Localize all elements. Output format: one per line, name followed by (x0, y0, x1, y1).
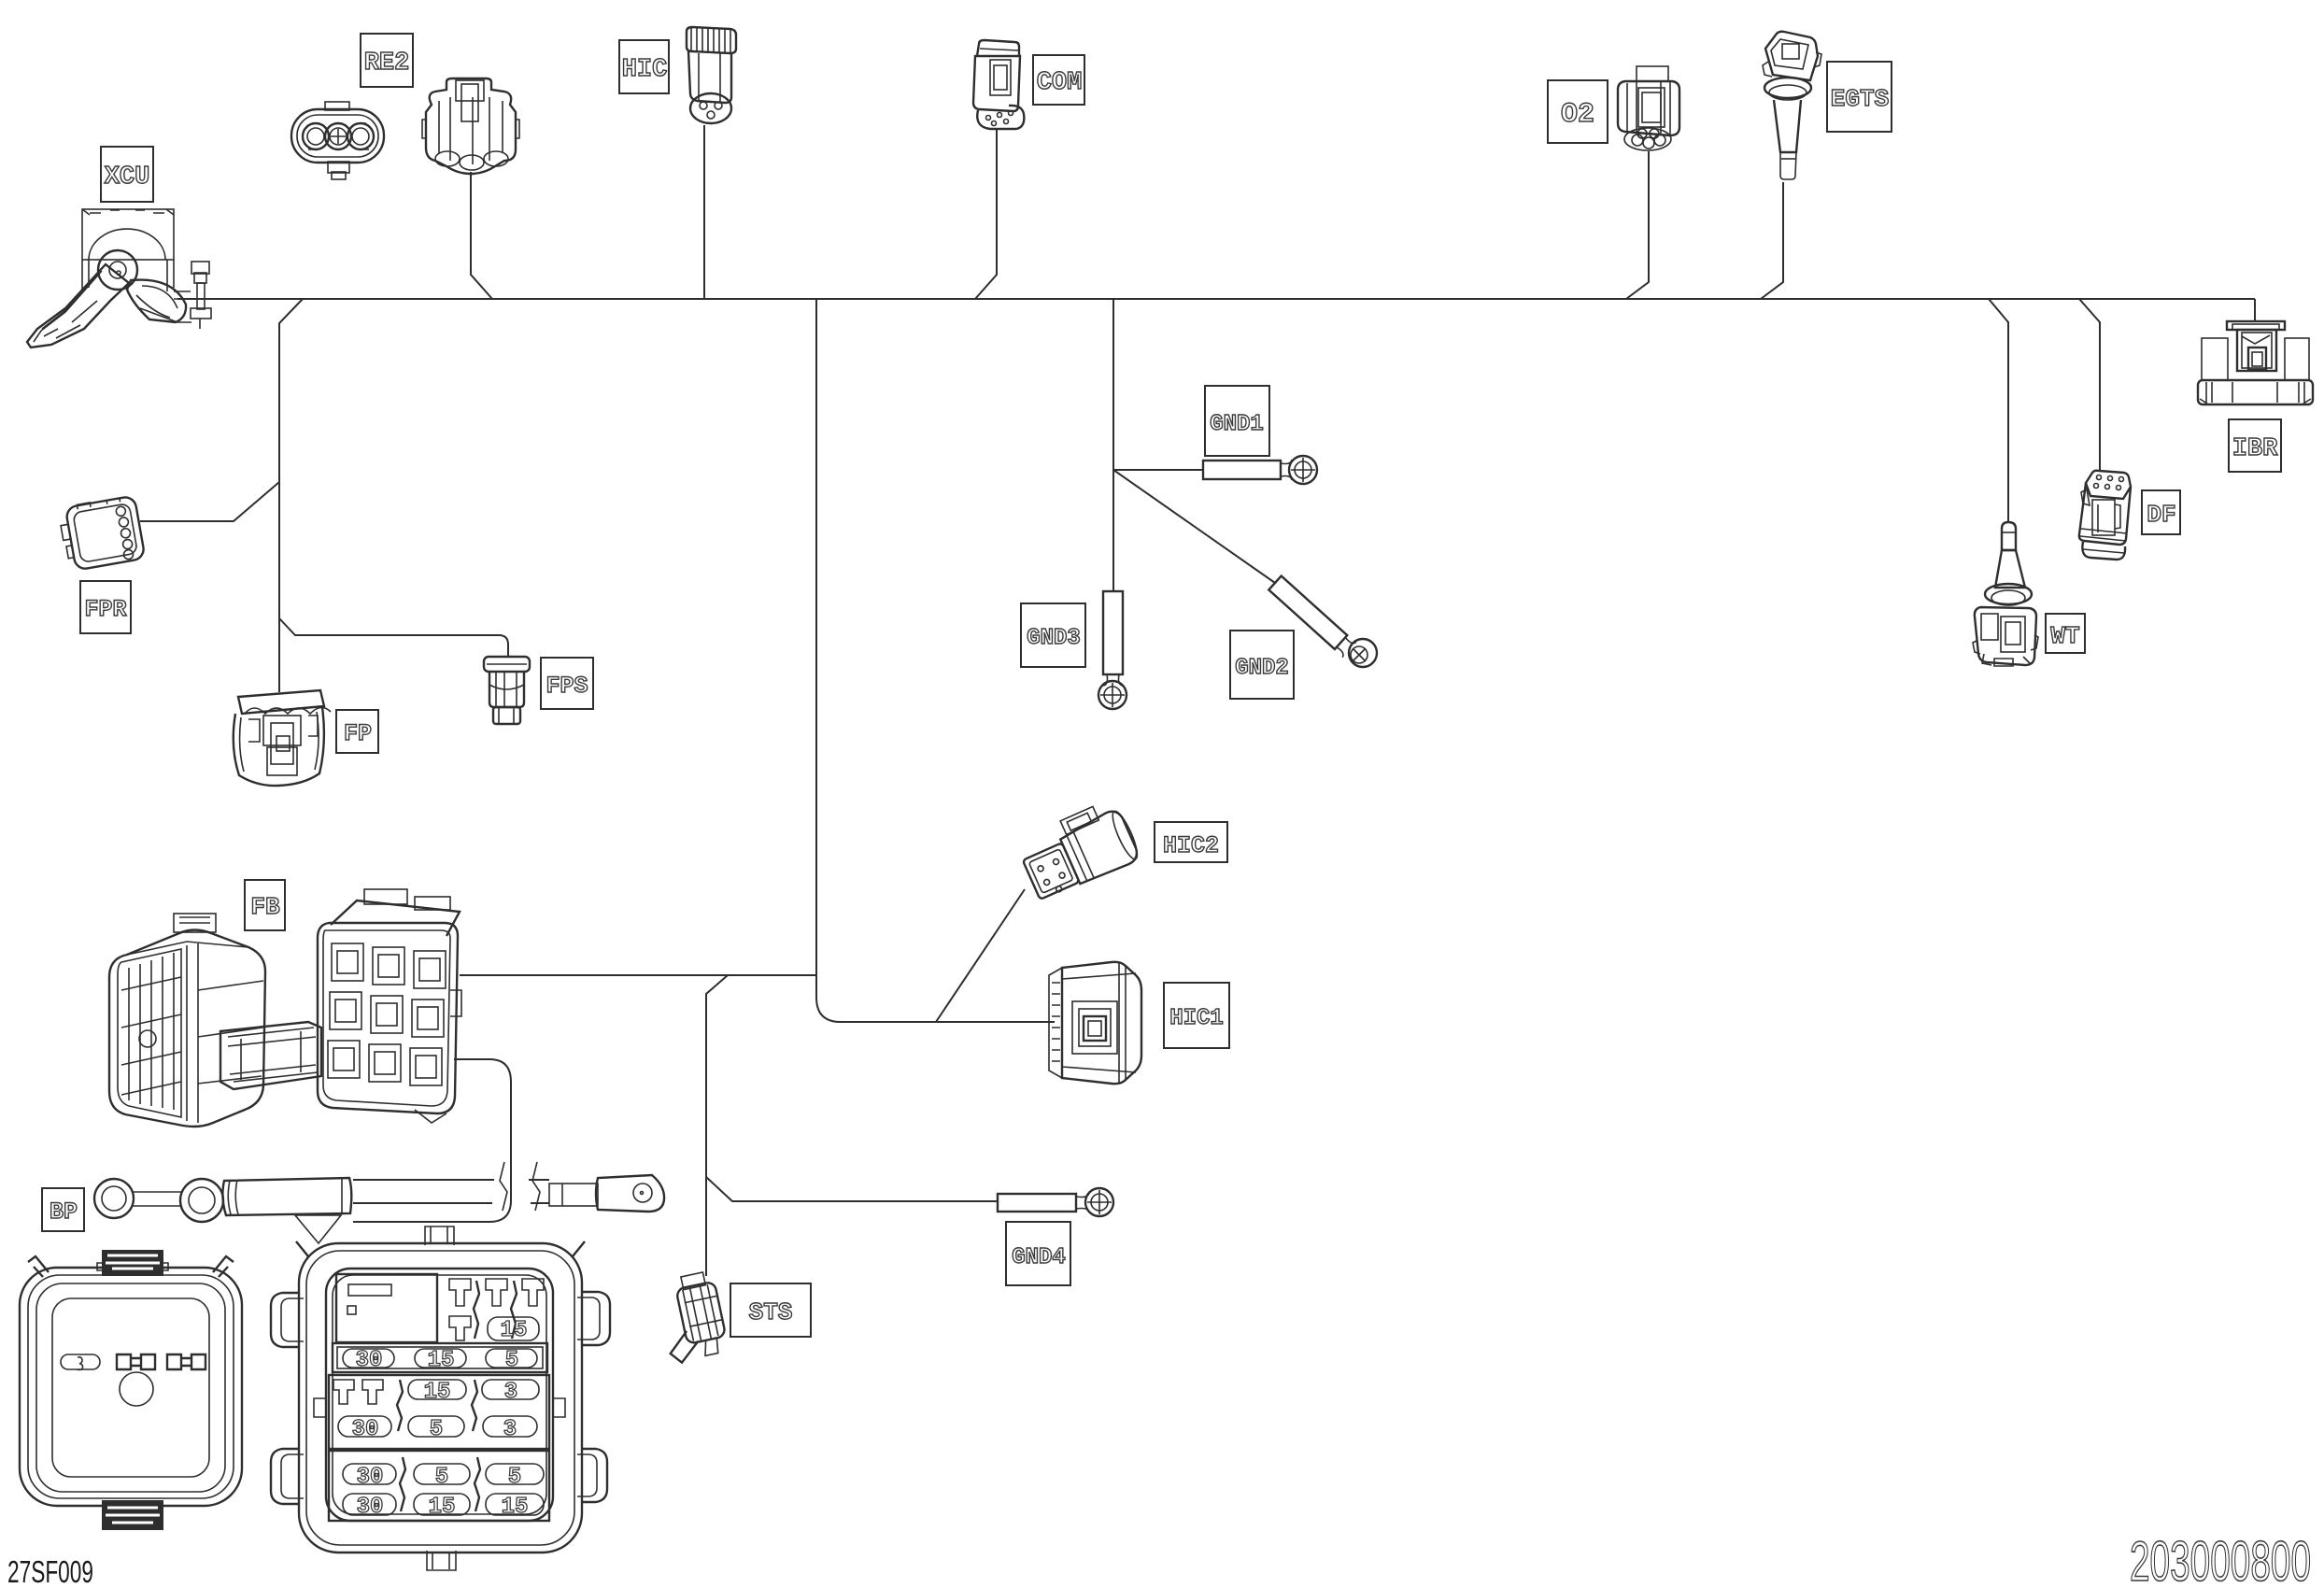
label DF (2142, 490, 2180, 534)
wire RE2 drop (471, 172, 492, 299)
wire O2 drop (1626, 151, 1649, 299)
connector HIC2 (1014, 797, 1142, 903)
connector WT (1973, 522, 2038, 666)
wire BP cable top (353, 1179, 549, 1181)
wire FPR branch (140, 482, 279, 521)
svg-text:GND4: GND4 (1012, 1245, 1066, 1270)
connector FP (234, 690, 331, 786)
wire FPS branch (279, 618, 508, 657)
connector RE2 barrel (422, 78, 519, 174)
svg-text:RE2: RE2 (364, 50, 410, 78)
connector IBR (2198, 321, 2313, 404)
label STS (730, 1283, 811, 1337)
svg-text:15: 15 (428, 1348, 455, 1373)
wire HIC2 diagonal (936, 889, 1025, 1022)
svg-text:FPS: FPS (546, 673, 588, 700)
FB connector tongue (220, 1022, 321, 1089)
label O2 (1548, 80, 1608, 143)
label FB (245, 880, 285, 930)
label BP (42, 1188, 84, 1231)
label EGTS (1827, 62, 1892, 132)
svg-text:3: 3 (503, 1417, 517, 1442)
svg-text:O2: O2 (1561, 99, 1594, 131)
svg-text:203000800: 203000800 (2130, 1530, 2311, 1588)
terminal GND3 (1098, 591, 1127, 709)
wire GND1 branch (1113, 469, 1203, 471)
svg-text:HIC1: HIC1 (1169, 1006, 1224, 1031)
svg-text:15: 15 (424, 1380, 451, 1405)
wire DF drop (2079, 299, 2100, 472)
wire STS drop (706, 975, 728, 1276)
svg-text:15: 15 (429, 1495, 456, 1520)
wire IBR corner (2254, 299, 2256, 322)
svg-text:EGTS: EGTS (1831, 85, 1889, 113)
label IBR (2229, 419, 2281, 472)
svg-text:30: 30 (357, 1495, 384, 1520)
connector XCU (27, 209, 211, 347)
label HIC (619, 40, 669, 93)
wire COM drop (975, 129, 997, 299)
svg-text:WT: WT (2050, 622, 2079, 650)
wire FB to trunk B (460, 974, 816, 976)
svg-text:30: 30 (357, 1465, 384, 1490)
label FP (336, 710, 378, 753)
label HIC1 (1164, 983, 1229, 1048)
terminal GND2 (1268, 575, 1377, 667)
svg-text:27SF009: 27SF009 (7, 1554, 93, 1588)
connector O2 (1618, 66, 1679, 150)
connector FB right box (318, 889, 461, 1123)
svg-text:5: 5 (505, 1348, 518, 1373)
svg-text:30: 30 (356, 1348, 383, 1373)
svg-text:15: 15 (501, 1318, 528, 1343)
svg-text:5: 5 (430, 1417, 443, 1442)
svg-text:FB: FB (250, 893, 280, 921)
connector HIC1 (1049, 962, 1141, 1084)
fuse box body (271, 1226, 610, 1570)
BP rod cylinder (222, 1178, 351, 1243)
svg-text:STS: STS (749, 1298, 793, 1326)
svg-text:3: 3 (504, 1380, 517, 1405)
connector FPS (484, 657, 530, 724)
wire main bus (177, 298, 2255, 300)
connector FPR (58, 495, 146, 572)
svg-text:GND1: GND1 (1210, 412, 1264, 437)
wire GND2 branch (1113, 470, 1275, 583)
svg-text:HIC2: HIC2 (1163, 832, 1219, 859)
connector EGTS (1763, 32, 1821, 179)
label GND4 (1006, 1222, 1070, 1285)
svg-text:GND3: GND3 (1027, 626, 1081, 651)
terminal GND1 (1203, 456, 1317, 484)
label WT (2046, 614, 2085, 653)
svg-text:5: 5 (435, 1465, 448, 1490)
label FPS (541, 658, 593, 709)
svg-text:COM: COM (1037, 69, 1083, 97)
svg-text:XCU: XCU (105, 163, 150, 191)
connector HIC (687, 27, 736, 123)
label GND1 (1205, 386, 1269, 456)
label HIC2 (1155, 822, 1227, 862)
svg-text:GND2: GND2 (1235, 656, 1289, 681)
label COM (1033, 55, 1084, 105)
connector FB left box (109, 914, 265, 1127)
label RE2 (361, 34, 413, 87)
label GND3 (1021, 603, 1085, 667)
svg-text:BP: BP (50, 1198, 78, 1226)
wire trunk B to HIC1 (816, 299, 1055, 1022)
label GND2 (1230, 631, 1294, 699)
terminal GND4 (998, 1188, 1113, 1216)
svg-text:15: 15 (502, 1495, 529, 1520)
connector STS (656, 1270, 730, 1365)
wire GND4 branch (706, 1177, 998, 1201)
BP rod rings (94, 1179, 223, 1222)
label FPR (80, 581, 131, 633)
BP cable lug (549, 1175, 664, 1212)
svg-text:IBR: IBR (2232, 435, 2278, 463)
text sheet code (7, 1554, 93, 1588)
svg-text:5: 5 (508, 1465, 521, 1490)
svg-text:HIC: HIC (622, 56, 668, 84)
svg-text:DF: DF (2147, 501, 2175, 529)
wire GND trunk (1112, 299, 1114, 591)
break mark 2 (532, 1162, 540, 1211)
wire trunk left (to FP) (279, 299, 303, 692)
wire EGTS drop (1761, 182, 1783, 299)
wire HIC drop (703, 125, 705, 299)
text part number (2130, 1530, 2311, 1588)
svg-text:FPR: FPR (84, 596, 126, 623)
wire BP cable bottom (353, 1202, 549, 1204)
fuse box cover (20, 1250, 242, 1530)
connector COM (973, 40, 1024, 129)
connector RE2 oval (291, 102, 384, 179)
wire FB lower cable (353, 1059, 511, 1222)
break mark 1 (500, 1162, 507, 1211)
wire WT drop (1989, 299, 2008, 522)
svg-text:FP: FP (344, 720, 372, 747)
connector DF (2079, 471, 2131, 560)
svg-text:30: 30 (352, 1417, 379, 1442)
label XCU (101, 147, 153, 202)
